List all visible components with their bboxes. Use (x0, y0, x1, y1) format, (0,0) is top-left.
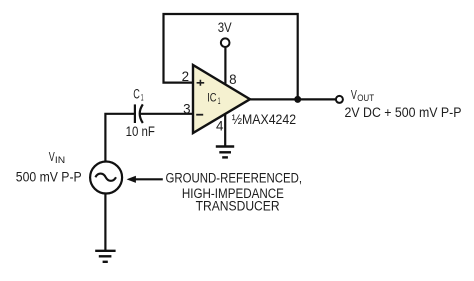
wire: source up to capacitor (105, 114, 134, 162)
svg-text:1: 1 (141, 92, 144, 103)
svg-text:3: 3 (183, 102, 190, 117)
svg-text:10 nF: 10 nF (126, 124, 155, 139)
terminal VOUT open circle (336, 96, 343, 103)
sine wave inside source (95, 174, 116, 181)
svg-text:IC: IC (207, 91, 217, 105)
svg-text:IN: IN (55, 155, 65, 165)
wire: source to ground (104, 194, 106, 251)
node: output junction dot (294, 96, 301, 103)
annotation arrow to transducer (127, 176, 136, 183)
ground (op-amp pin 4) (216, 147, 234, 158)
svg-text:8: 8 (229, 72, 236, 87)
supply terminal 3V circle (221, 38, 230, 47)
svg-text:500 mV P-P: 500 mV P-P (16, 169, 82, 184)
svg-text:3V: 3V (218, 20, 232, 35)
op-amp inverting - marker (196, 114, 203, 116)
svg-text:TRANSDUCER: TRANSDUCER (196, 198, 280, 213)
op-amp IC1 (1/2 MAX4242) triangle body (193, 65, 250, 133)
svg-text:1: 1 (218, 96, 221, 106)
wire: output (op-amp tip to VOUT terminal) (250, 98, 335, 100)
wire: feedback loop (pin 2 to output junction) (164, 14, 298, 99)
svg-text:2V DC + 500 mV P-P: 2V DC + 500 mV P-P (345, 105, 462, 120)
ground (source) (95, 251, 115, 262)
source VIN AC symbol (90, 162, 122, 194)
wire: capacitor to pin 3 (140, 113, 194, 115)
svg-text:OUT: OUT (357, 93, 374, 103)
svg-text:½MAX4242: ½MAX4242 (232, 112, 296, 127)
svg-text:2: 2 (182, 69, 189, 84)
svg-text:GROUND-REFERENCED,: GROUND-REFERENCED, (166, 170, 303, 185)
op-amp non-inverting + marker (197, 80, 205, 86)
capacitor C1 plates (135, 104, 143, 123)
wire: 3V supply to pin 8 (224, 47, 226, 85)
wire: pin 4 to ground (224, 113, 226, 147)
svg-text:C: C (133, 87, 140, 102)
svg-text:4: 4 (216, 119, 224, 134)
